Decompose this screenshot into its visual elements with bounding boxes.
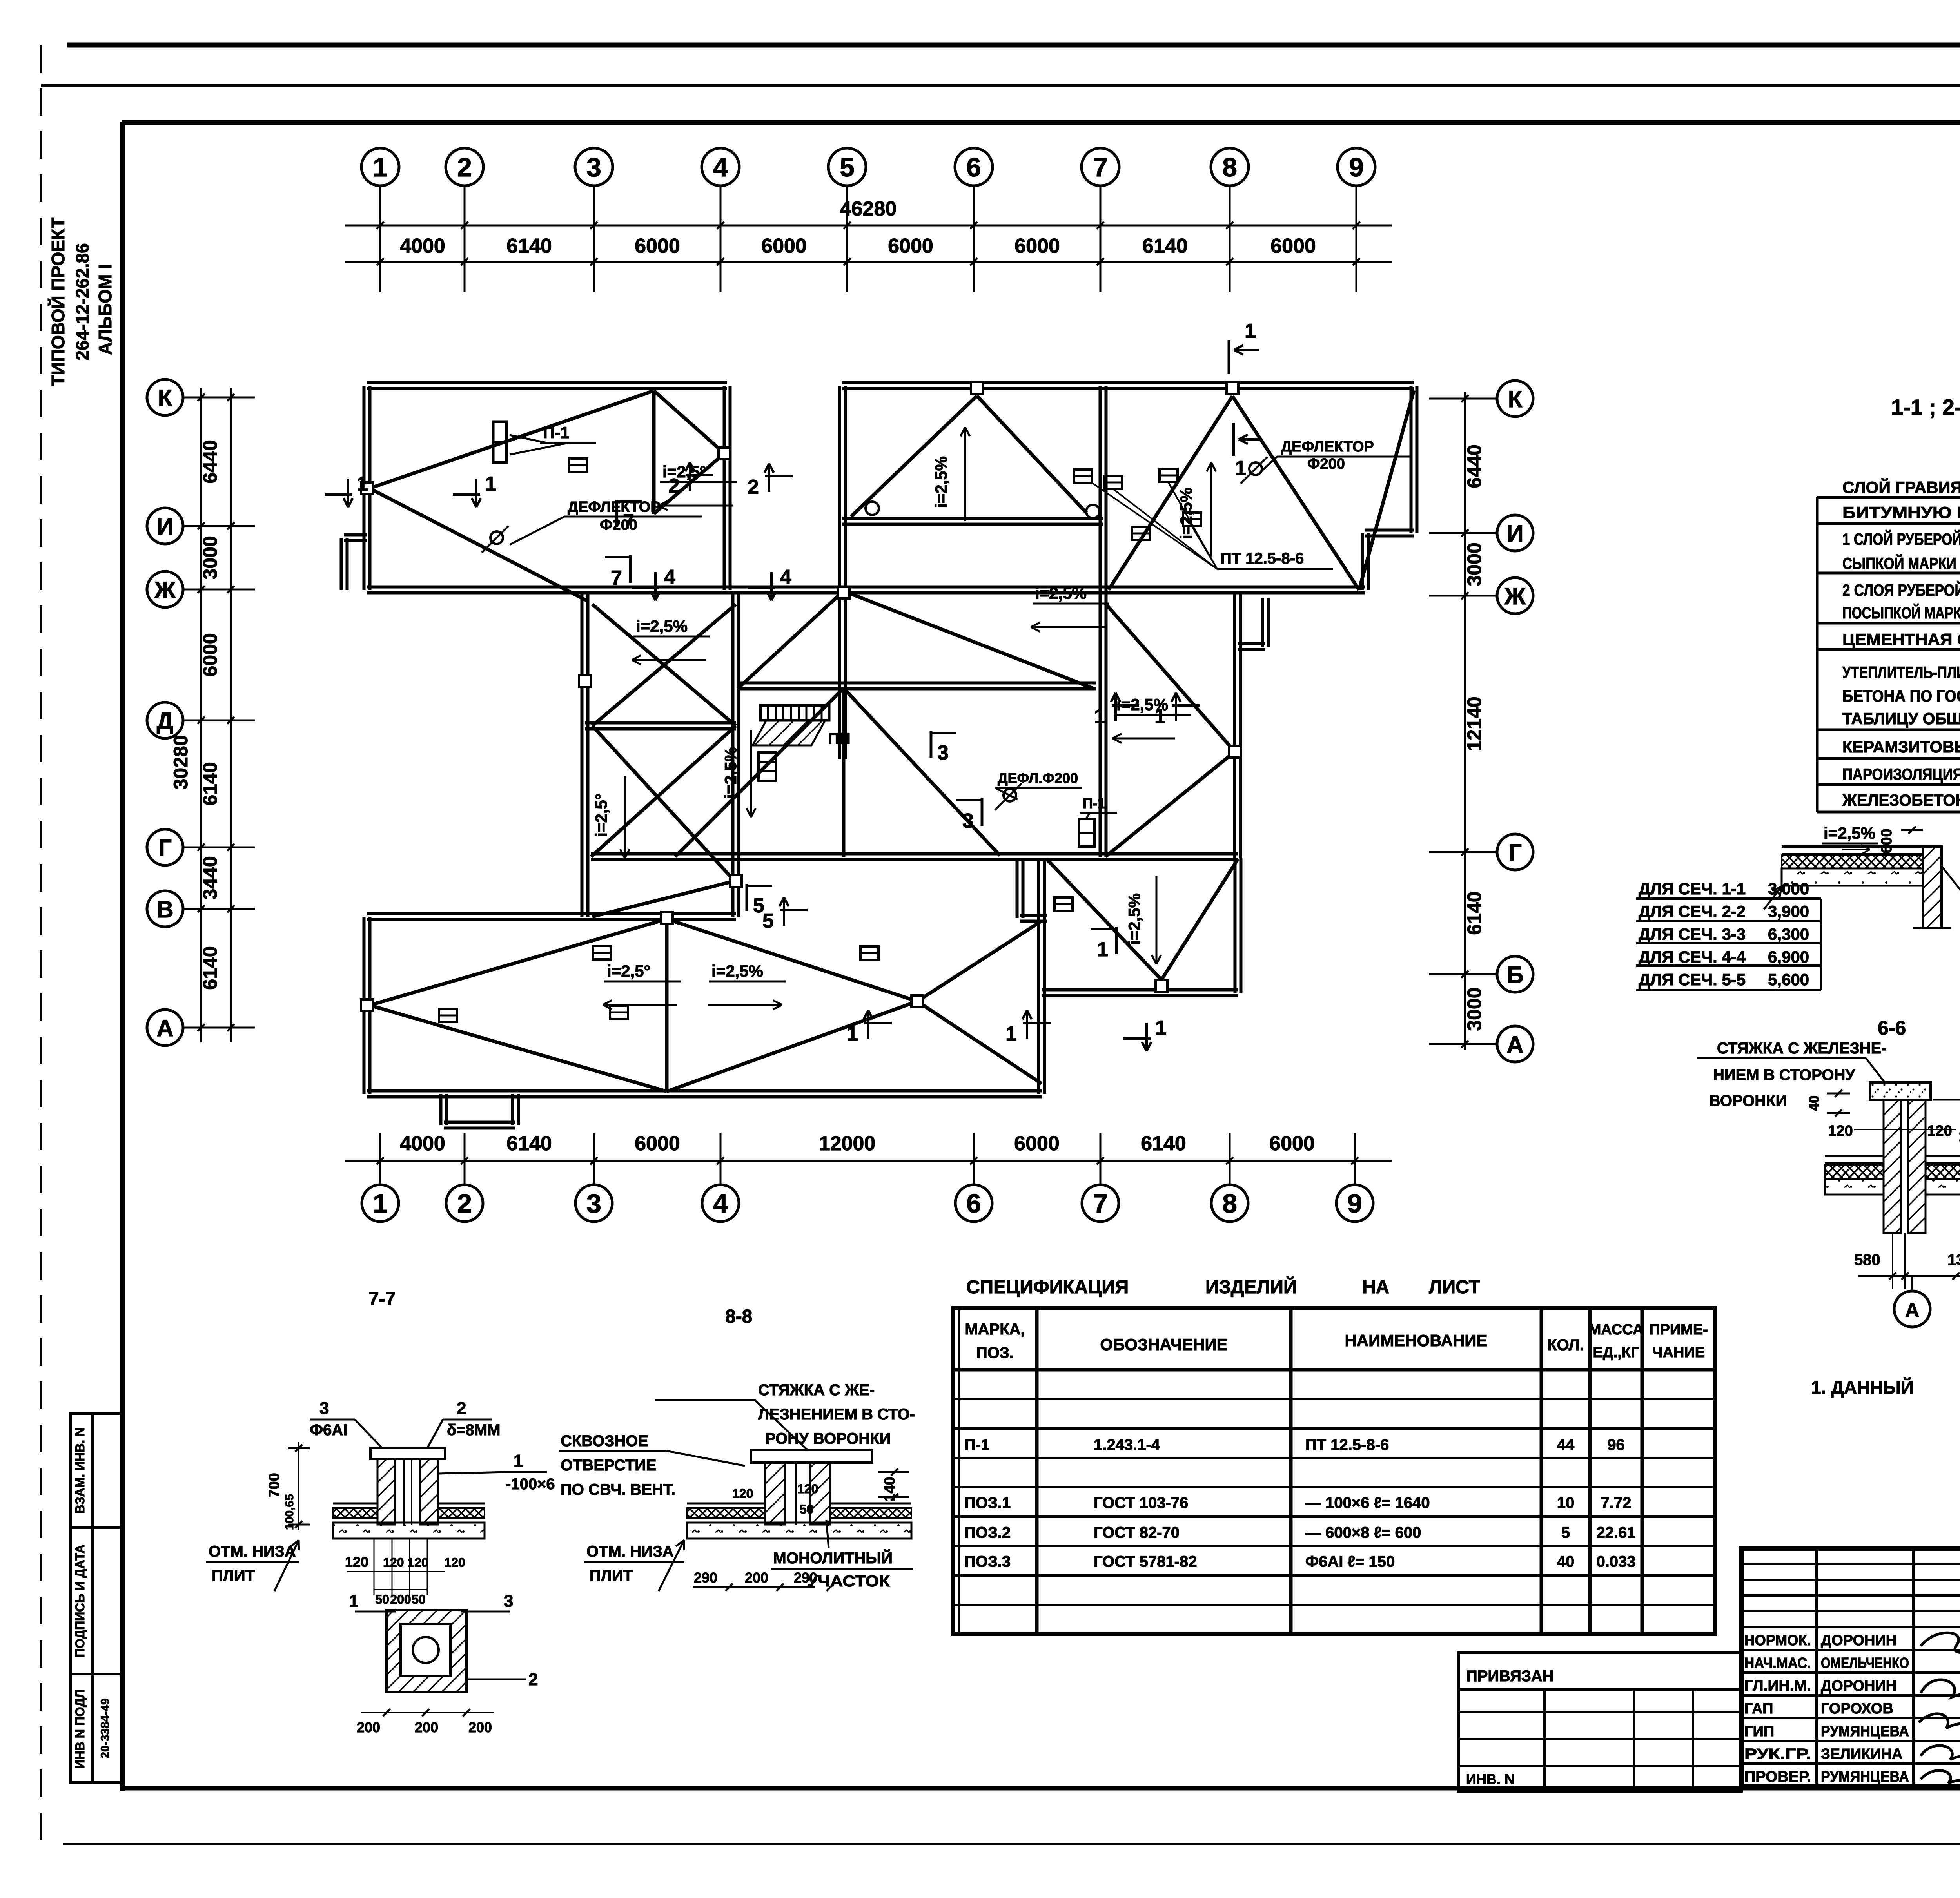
svg-text:6140: 6140	[1141, 1132, 1186, 1155]
svg-text:УЧАСТОК: УЧАСТОК	[807, 1573, 890, 1590]
svg-text:50: 50	[800, 1502, 814, 1516]
svg-text:КЕРАМЗИТОВЫЙ ГРАВИЙ ПО УКЛОНУ: КЕРАМЗИТОВЫЙ ГРАВИЙ ПО УКЛОНУ	[1842, 737, 1960, 756]
svg-text:ДОРОНИН: ДОРОНИН	[1821, 1632, 1896, 1649]
svg-text:ВЗАМ. ИНВ. N: ВЗАМ. ИНВ. N	[73, 1427, 87, 1514]
svg-text:МАССА: МАССА	[1589, 1322, 1644, 1338]
svg-text:2 СЛОЯ РУБЕРОЙДА ПОДКЛАДОЧНОГО: 2 СЛОЯ РУБЕРОЙДА ПОДКЛАДОЧНОГО С ПЫЛЕВИД…	[1842, 580, 1960, 599]
svg-text:1: 1	[357, 473, 368, 495]
svg-text:1 СЛОЙ РУБЕРОЙДА КРОВЕЛЬНОГО С: 1 СЛОЙ РУБЕРОЙДА КРОВЕЛЬНОГО С МЕЛКОЗЕРН…	[1842, 529, 1960, 548]
svg-text:ЧАНИЕ: ЧАНИЕ	[1652, 1344, 1705, 1361]
svg-text:40: 40	[1557, 1553, 1575, 1570]
svg-text:4: 4	[664, 566, 675, 589]
svg-text:120: 120	[345, 1554, 368, 1570]
svg-text:ИНВ. N: ИНВ. N	[1466, 1771, 1515, 1787]
svg-text:6000: 6000	[761, 235, 807, 257]
svg-text:ДЛЯ СЕЧ. 1-1: ДЛЯ СЕЧ. 1-1	[1639, 879, 1746, 898]
svg-text:ГОСТ 5781-82: ГОСТ 5781-82	[1094, 1553, 1197, 1570]
svg-text:50: 50	[375, 1592, 389, 1606]
svg-text:ОМЕЛЬЧЕНКО: ОМЕЛЬЧЕНКО	[1821, 1655, 1909, 1671]
svg-text:ИЗДЕЛИЙ: ИЗДЕЛИЙ	[1205, 1276, 1297, 1298]
svg-text:Ф200: Ф200	[1307, 456, 1345, 472]
svg-text:6000: 6000	[1014, 1132, 1060, 1155]
svg-text:6: 6	[966, 1189, 981, 1218]
svg-text:7: 7	[1093, 1189, 1108, 1218]
svg-text:4: 4	[713, 152, 728, 182]
svg-text:К: К	[158, 385, 172, 411]
svg-text:2: 2	[668, 475, 680, 497]
svg-text:1: 1	[1155, 1017, 1167, 1039]
svg-text:ПОСЫПКОЙ МАРКИ РКМ-350Б НА БИТ: ПОСЫПКОЙ МАРКИ РКМ-350Б НА БИТУМНОЙ МАСТ…	[1842, 603, 1960, 622]
svg-text:1: 1	[1094, 705, 1105, 728]
svg-text:Б: Б	[1506, 962, 1523, 988]
svg-text:ГАП: ГАП	[1744, 1700, 1773, 1717]
svg-text:ПОДПИСЬ И ДАТА: ПОДПИСЬ И ДАТА	[73, 1545, 87, 1657]
svg-text:ЛЕЗНЕНИЕМ В СТО-: ЛЕЗНЕНИЕМ В СТО-	[758, 1406, 915, 1423]
svg-text:СТЯЖКА С ЖЕЛЕЗНЕ-: СТЯЖКА С ЖЕЛЕЗНЕ-	[1717, 1040, 1887, 1057]
svg-text:БИТУМНУЮ МАСТИКУ: БИТУМНУЮ МАСТИКУ	[1842, 503, 1960, 522]
svg-text:5: 5	[762, 910, 774, 932]
svg-text:4: 4	[713, 1189, 728, 1218]
svg-text:ПЛИТ: ПЛИТ	[212, 1567, 255, 1584]
svg-text:9: 9	[1349, 152, 1364, 182]
svg-text:3: 3	[937, 741, 949, 764]
svg-text:4000: 4000	[400, 235, 445, 257]
svg-text:200: 200	[745, 1570, 768, 1586]
svg-text:ЛИСТ: ЛИСТ	[1429, 1277, 1480, 1298]
svg-text:i=2,5%: i=2,5%	[1035, 584, 1087, 602]
svg-text:П-1: П-1	[543, 423, 570, 442]
svg-text:2: 2	[457, 1189, 472, 1218]
svg-text:600: 600	[1878, 828, 1895, 853]
svg-text:П-1: П-1	[1083, 795, 1105, 811]
svg-text:ДЕФЛЕКТОР: ДЕФЛЕКТОР	[568, 499, 661, 515]
svg-text:120: 120	[444, 1555, 465, 1570]
svg-text:22.61: 22.61	[1596, 1524, 1635, 1541]
svg-text:2: 2	[528, 1670, 538, 1689]
svg-text:ПРИМЕ-: ПРИМЕ-	[1649, 1322, 1708, 1338]
svg-text:96: 96	[1607, 1436, 1625, 1454]
svg-text:ГОРОХОВ: ГОРОХОВ	[1821, 1700, 1893, 1717]
svg-text:6440: 6440	[1463, 444, 1485, 488]
svg-text:РУМЯНЦЕВА: РУМЯНЦЕВА	[1821, 1769, 1909, 1785]
svg-text:УТЕПЛИТЕЛЬ-ПЛИТЫ ИЗОЛЯЦИОННЫЕ: УТЕПЛИТЕЛЬ-ПЛИТЫ ИЗОЛЯЦИОННЫЕ ИЗ ЯЧЕИСТО…	[1842, 663, 1960, 682]
svg-text:ПОЗ.1: ПОЗ.1	[964, 1494, 1011, 1512]
svg-text:К: К	[1508, 386, 1523, 412]
svg-text:И: И	[1506, 520, 1523, 547]
svg-text:1: 1	[514, 1451, 523, 1470]
svg-text:3000: 3000	[1463, 987, 1485, 1031]
svg-text:НАЧ.МАС.: НАЧ.МАС.	[1744, 1655, 1811, 1671]
svg-text:3000: 3000	[199, 536, 221, 579]
svg-text:ПН: ПН	[828, 730, 851, 747]
svg-text:120 120: 120 120	[383, 1555, 428, 1570]
svg-text:6140: 6140	[199, 946, 221, 990]
svg-text:— 100×6 ℓ= 1640: — 100×6 ℓ= 1640	[1305, 1494, 1430, 1512]
svg-text:7: 7	[1093, 152, 1108, 182]
svg-text:Ф6АI: Ф6АI	[310, 1421, 347, 1439]
svg-text:1: 1	[847, 1022, 858, 1045]
svg-text:ПОЗ.2: ПОЗ.2	[964, 1524, 1011, 1541]
svg-text:5: 5	[1561, 1524, 1570, 1541]
svg-text:ТИПОВОЙ ПРОЕКТ: ТИПОВОЙ ПРОЕКТ	[48, 218, 68, 386]
svg-text:44: 44	[1557, 1436, 1575, 1454]
svg-text:НА: НА	[1362, 1277, 1389, 1298]
svg-text:1: 1	[485, 473, 496, 495]
svg-text:АЛЬБОМ I: АЛЬБОМ I	[95, 264, 115, 355]
svg-text:6140: 6140	[506, 235, 552, 257]
svg-text:30280: 30280	[170, 735, 192, 789]
svg-text:6,300: 6,300	[1768, 925, 1809, 943]
svg-text:2: 2	[748, 476, 759, 499]
svg-text:1: 1	[349, 1592, 358, 1611]
svg-text:ПРИВЯЗАН: ПРИВЯЗАН	[1466, 1668, 1554, 1685]
svg-text:ПО СВЧ. ВЕНТ.: ПО СВЧ. ВЕНТ.	[561, 1481, 675, 1498]
svg-text:ГОСТ 103-76: ГОСТ 103-76	[1094, 1494, 1188, 1512]
svg-text:9: 9	[1347, 1189, 1362, 1218]
svg-text:1-1 ; 2-2 ; 3-3 ; 4-4 ; 5-: 1-1 ; 2-2 ; 3-3 ; 4-4 ; 5-5	[1891, 395, 1960, 419]
svg-text:И: И	[156, 513, 173, 540]
svg-text:6140: 6140	[1142, 235, 1188, 257]
svg-text:i=2,5%: i=2,5%	[721, 747, 740, 799]
svg-text:3: 3	[586, 1189, 601, 1218]
svg-text:СЫПКОЙ МАРКИ РКМ-350Б НА БИТУМ: СЫПКОЙ МАРКИ РКМ-350Б НА БИТУМНОЙ МАСТИК…	[1842, 554, 1960, 573]
svg-text:ГОСТ 82-70: ГОСТ 82-70	[1094, 1524, 1180, 1541]
svg-text:1.243.1-4: 1.243.1-4	[1094, 1436, 1160, 1454]
svg-text:А: А	[156, 1015, 173, 1041]
svg-text:Ф6АI ℓ= 150: Ф6АI ℓ= 150	[1305, 1553, 1395, 1570]
svg-text:8-8: 8-8	[725, 1306, 752, 1327]
svg-text:МАРКА,: МАРКА,	[965, 1321, 1025, 1338]
svg-text:ПТ 12.5-8-6: ПТ 12.5-8-6	[1305, 1436, 1389, 1454]
svg-text:ЖЕЛЕЗОБЕТОННЫЕ ПЛИТЫ - 220 ММ: ЖЕЛЕЗОБЕТОННЫЕ ПЛИТЫ - 220 ММ	[1842, 791, 1960, 809]
svg-text:10: 10	[1557, 1494, 1575, 1512]
svg-text:46280: 46280	[840, 198, 897, 220]
svg-text:ЗЕЛИКИНА: ЗЕЛИКИНА	[1821, 1746, 1903, 1762]
svg-text:3: 3	[586, 152, 601, 182]
svg-text:200: 200	[415, 1719, 438, 1735]
svg-text:БЕТОНА ПО ГОСТ 5742-76 γ=400: БЕТОНА ПО ГОСТ 5742-76 γ=400 КГС/М³ СМ.	[1842, 687, 1960, 705]
svg-text:3,900: 3,900	[1768, 902, 1809, 921]
svg-text:НИЕМ В СТОРОНУ: НИЕМ В СТОРОНУ	[1713, 1066, 1855, 1084]
svg-text:РОНУ ВОРОНКИ: РОНУ ВОРОНКИ	[765, 1430, 891, 1447]
svg-text:700: 700	[266, 1473, 283, 1497]
svg-text:КОЛ.: КОЛ.	[1547, 1336, 1584, 1354]
svg-text:200: 200	[390, 1592, 411, 1606]
svg-text:3: 3	[319, 1399, 329, 1418]
svg-text:4000: 4000	[400, 1132, 445, 1155]
svg-text:ВОРОНКИ: ВОРОНКИ	[1709, 1092, 1787, 1109]
svg-text:130: 130	[1947, 1251, 1960, 1269]
svg-text:В: В	[156, 896, 173, 923]
svg-text:6000: 6000	[199, 633, 221, 676]
svg-text:ДЛЯ СЕЧ. 3-3: ДЛЯ СЕЧ. 3-3	[1639, 925, 1746, 943]
svg-text:i=2,5%: i=2,5%	[1125, 893, 1143, 945]
svg-text:1: 1	[1154, 705, 1166, 728]
svg-text:ДЛЯ СЕЧ. 5-5: ДЛЯ СЕЧ. 5-5	[1639, 970, 1746, 989]
svg-text:6000: 6000	[888, 235, 933, 257]
svg-text:3: 3	[504, 1592, 513, 1611]
svg-text:3440: 3440	[199, 856, 221, 899]
svg-text:1. ДАННЫЙ: 1. ДАННЫЙ	[1811, 1377, 1914, 1398]
svg-text:0.033: 0.033	[1596, 1553, 1635, 1570]
svg-text:ГИП: ГИП	[1744, 1723, 1774, 1740]
svg-text:НАИМЕНОВАНИЕ: НАИМЕНОВАНИЕ	[1345, 1331, 1488, 1350]
svg-text:6000: 6000	[1014, 235, 1060, 257]
svg-text:ДЕФЛ.Ф200: ДЕФЛ.Ф200	[998, 770, 1078, 786]
svg-text:6: 6	[966, 152, 981, 182]
svg-text:ПЛИТ: ПЛИТ	[590, 1567, 633, 1584]
svg-text:7.72: 7.72	[1601, 1494, 1632, 1512]
svg-text:1: 1	[373, 152, 388, 182]
svg-text:ЦЕМЕНТНАЯ СТЯЖКА - 20ММ: ЦЕМЕНТНАЯ СТЯЖКА - 20ММ	[1842, 630, 1960, 649]
svg-text:2: 2	[457, 152, 472, 182]
svg-text:РУК.ГР.: РУК.ГР.	[1744, 1746, 1811, 1762]
svg-text:580: 580	[1854, 1251, 1880, 1269]
svg-text:20-3384-49: 20-3384-49	[99, 1698, 112, 1758]
svg-text:120: 120	[732, 1486, 753, 1501]
svg-text:7-7: 7-7	[368, 1289, 396, 1309]
svg-text:ПОЗ.: ПОЗ.	[976, 1344, 1014, 1361]
svg-text:6-6: 6-6	[1878, 1017, 1906, 1039]
svg-text:3000: 3000	[1463, 542, 1485, 586]
svg-text:СЛОЙ ГРАВИЯ ПО ГОСТ 8283-74 ,: СЛОЙ ГРАВИЯ ПО ГОСТ 8283-74 , ВТОПЛЕННЫЙ…	[1842, 478, 1960, 497]
svg-text:i=2,5°: i=2,5°	[592, 793, 610, 837]
svg-text:i=2,5%: i=2,5%	[932, 456, 950, 508]
svg-text:4: 4	[780, 566, 791, 589]
svg-text:СКВОЗНОЕ: СКВОЗНОЕ	[561, 1432, 648, 1450]
svg-text:6440: 6440	[199, 440, 221, 483]
svg-text:ЕД.,КГ: ЕД.,КГ	[1593, 1344, 1639, 1361]
svg-text:Г: Г	[1508, 839, 1522, 866]
svg-text:1: 1	[373, 1189, 388, 1218]
svg-text:НОРМОК.: НОРМОК.	[1744, 1632, 1811, 1649]
svg-text:100,65: 100,65	[283, 1494, 296, 1530]
svg-text:3,000: 3,000	[1768, 879, 1809, 898]
svg-text:120: 120	[1927, 1123, 1952, 1139]
svg-text:12000: 12000	[819, 1132, 876, 1155]
svg-text:δ=8ММ: δ=8ММ	[447, 1421, 501, 1439]
svg-text:-100×6: -100×6	[506, 1476, 555, 1493]
svg-text:ТАБЛИЦУ ОБЩИХ ДАННЫХ: ТАБЛИЦУ ОБЩИХ ДАННЫХ	[1842, 709, 1960, 728]
svg-text:1: 1	[1005, 1022, 1017, 1045]
svg-text:i=2,5%: i=2,5%	[1824, 824, 1875, 842]
svg-text:РУМЯНЦЕВА: РУМЯНЦЕВА	[1821, 1723, 1909, 1740]
svg-text:i=2,5%: i=2,5%	[711, 962, 763, 980]
svg-text:ГЛ.ИН.М.: ГЛ.ИН.М.	[1744, 1678, 1811, 1694]
svg-text:СТЯЖКА С ЖЕ-: СТЯЖКА С ЖЕ-	[758, 1381, 875, 1399]
svg-text:Д: Д	[157, 708, 174, 734]
svg-text:— 600×8 ℓ= 600: — 600×8 ℓ= 600	[1305, 1524, 1421, 1541]
svg-text:6,900: 6,900	[1768, 948, 1809, 966]
svg-text:СПЕЦИФИКАЦИЯ: СПЕЦИФИКАЦИЯ	[966, 1277, 1129, 1298]
svg-text:7: 7	[623, 510, 634, 533]
svg-text:ОТМ. НИЗА: ОТМ. НИЗА	[586, 1543, 674, 1560]
svg-text:6140: 6140	[199, 762, 221, 805]
svg-text:1: 1	[1245, 320, 1256, 343]
svg-text:ОТВЕРСТИЕ: ОТВЕРСТИЕ	[561, 1457, 657, 1474]
svg-text:8: 8	[1222, 1189, 1237, 1218]
svg-text:6140: 6140	[1463, 891, 1485, 935]
svg-text:40: 40	[1806, 1095, 1822, 1111]
svg-text:1: 1	[1235, 457, 1246, 480]
svg-text:ПОЗ.3: ПОЗ.3	[964, 1553, 1011, 1570]
svg-text:200: 200	[468, 1719, 492, 1735]
svg-text:2: 2	[457, 1399, 466, 1418]
svg-text:5,600: 5,600	[1768, 970, 1809, 989]
svg-text:6000: 6000	[635, 1132, 680, 1155]
svg-text:290: 290	[694, 1570, 717, 1586]
svg-text:ДЛЯ СЕЧ. 4-4: ДЛЯ СЕЧ. 4-4	[1639, 948, 1746, 966]
svg-text:ДОРОНИН: ДОРОНИН	[1821, 1678, 1896, 1694]
svg-text:ИНВ N ПОДЛ: ИНВ N ПОДЛ	[73, 1690, 87, 1769]
svg-text:А: А	[1905, 1299, 1919, 1321]
svg-text:МОНОЛИТНЫЙ: МОНОЛИТНЫЙ	[773, 1549, 893, 1567]
svg-text:290: 290	[794, 1570, 817, 1586]
svg-text:ПТ 12.5-8-6: ПТ 12.5-8-6	[1220, 550, 1304, 567]
svg-text:7: 7	[611, 567, 622, 589]
svg-text:Г: Г	[158, 835, 172, 861]
svg-text:ДЕФЛЕКТОР: ДЕФЛЕКТОР	[1281, 439, 1374, 455]
svg-text:120: 120	[1828, 1123, 1853, 1139]
svg-text:Ж: Ж	[1504, 583, 1526, 609]
svg-text:12140: 12140	[1463, 696, 1485, 751]
svg-text:6140: 6140	[506, 1132, 552, 1155]
svg-text:i=2,5°: i=2,5°	[607, 962, 650, 980]
svg-text:200: 200	[357, 1719, 380, 1735]
svg-text:i=2,5%: i=2,5%	[636, 617, 688, 635]
svg-text:140: 140	[1958, 1128, 1960, 1145]
svg-text:120: 120	[797, 1482, 818, 1496]
svg-text:3: 3	[962, 810, 974, 832]
svg-text:1: 1	[1097, 938, 1108, 961]
svg-text:П-1: П-1	[964, 1436, 989, 1454]
svg-text:ОТМ. НИЗА: ОТМ. НИЗА	[209, 1543, 296, 1560]
svg-text:ДЛЯ СЕЧ. 2-2: ДЛЯ СЕЧ. 2-2	[1639, 902, 1746, 921]
svg-text:50: 50	[412, 1592, 426, 1606]
svg-text:ПРОВЕР.: ПРОВЕР.	[1744, 1769, 1811, 1785]
svg-text:8: 8	[1222, 152, 1237, 182]
svg-text:ОБОЗНАЧЕНИЕ: ОБОЗНАЧЕНИЕ	[1100, 1335, 1227, 1354]
svg-text:А: А	[1506, 1031, 1523, 1058]
svg-text:6000: 6000	[1270, 235, 1316, 257]
svg-text:264-12-262.86: 264-12-262.86	[72, 243, 93, 360]
svg-text:6000: 6000	[1269, 1132, 1315, 1155]
svg-text:5: 5	[840, 152, 855, 182]
svg-text:ПАРОИЗОЛЯЦИЯ - РУБЕРОЙД НА БИТ: ПАРОИЗОЛЯЦИЯ - РУБЕРОЙД НА БИТУМНОЙ МАСТ…	[1842, 765, 1960, 783]
svg-text:6000: 6000	[635, 235, 680, 257]
svg-text:Ж: Ж	[154, 577, 176, 603]
